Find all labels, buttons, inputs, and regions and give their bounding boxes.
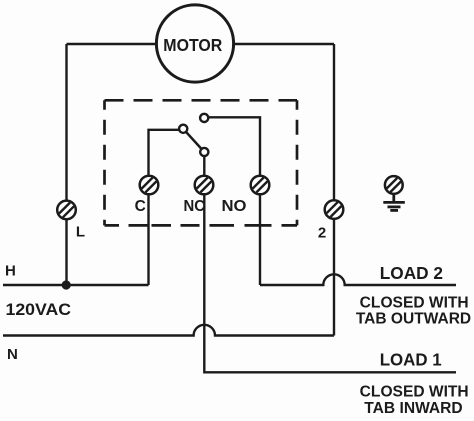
- svg-text:TAB OUTWARD: TAB OUTWARD: [356, 311, 471, 328]
- svg-text:LOAD 1: LOAD 1: [380, 349, 442, 369]
- node: H junction dot: [62, 280, 71, 289]
- wire: LOAD 2 line with hop over 2 column: [260, 274, 456, 285]
- switch SW1 blade: [183, 129, 204, 152]
- wire: H line: [3, 284, 149, 286]
- wire: left vertical L column: [65, 44, 67, 285]
- svg-text:L: L: [76, 224, 85, 241]
- svg-text:LOAD 2: LOAD 2: [380, 263, 444, 283]
- terminal C screw: [140, 176, 159, 195]
- svg-text:N: N: [7, 346, 18, 363]
- wire: NC column: [204, 152, 456, 372]
- switch SW1 NC moving contact: [200, 148, 208, 156]
- wire: motor top-left horizontal: [67, 43, 157, 45]
- svg-text:NC: NC: [184, 198, 206, 215]
- svg-text:H: H: [5, 262, 16, 279]
- terminal L screw: [57, 201, 76, 220]
- svg-text:MOTOR: MOTOR: [163, 35, 222, 55]
- wire: N line with hop over NC column: [3, 325, 334, 336]
- terminal NO screw: [251, 176, 270, 195]
- terminal NC screw: [195, 176, 214, 195]
- svg-text:NO: NO: [222, 198, 247, 215]
- svg-text:CLOSED WITH: CLOSED WITH: [360, 384, 469, 401]
- wire: NO contact lead: [204, 117, 260, 285]
- switch SW1 pivot contact: [179, 125, 187, 133]
- terminal 2 screw: [325, 200, 344, 219]
- motor M1: [156, 5, 233, 82]
- svg-text:CLOSED WITH: CLOSED WITH: [360, 294, 469, 311]
- switch body dashed enclosure: [105, 100, 298, 225]
- ground symbol: [383, 195, 405, 211]
- svg-text:120VAC: 120VAC: [6, 301, 72, 319]
- wire: right vertical 2 column: [333, 44, 335, 336]
- wire: C column: [149, 130, 184, 285]
- svg-text:TAB INWARD: TAB INWARD: [364, 400, 462, 417]
- switch SW1 NO fixed contact: [200, 114, 208, 122]
- svg-text:2: 2: [318, 224, 326, 241]
- wire: motor top-right horizontal: [234, 43, 335, 45]
- svg-text:C: C: [135, 198, 146, 215]
- ground screw: [385, 176, 403, 194]
